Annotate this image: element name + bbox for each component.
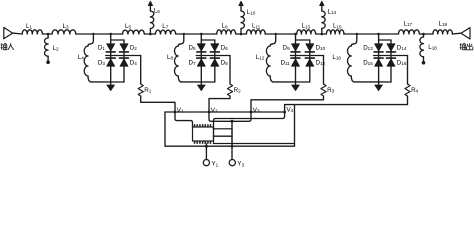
inductor L5 <box>123 30 145 34</box>
svg-text:L12: L12 <box>256 54 265 61</box>
ground group 4 <box>378 82 380 85</box>
svg-text:L14: L14 <box>328 9 337 16</box>
diode D3 <box>106 57 115 59</box>
svg-text:V3: V3 <box>253 107 260 114</box>
svg-text:D9: D9 <box>283 45 290 52</box>
svg-text:L16: L16 <box>332 54 341 61</box>
svg-text:Y3: Y3 <box>237 161 244 167</box>
node V1 <box>174 111 177 114</box>
winding teeth top <box>195 124 211 127</box>
svg-text:D10: D10 <box>316 45 326 52</box>
inductor L16 shunt coil <box>351 44 352 46</box>
svg-text:L19: L19 <box>439 21 448 28</box>
inductor L12 shunt coil <box>270 44 271 46</box>
wire diode column 2 group 2 <box>214 40 216 82</box>
terminal dot below L2 <box>46 60 50 64</box>
wire mid tap group 1 <box>106 55 141 57</box>
svg-text:L17: L17 <box>404 21 413 28</box>
inductor L7 <box>155 30 175 34</box>
svg-text:D13: D13 <box>363 45 373 52</box>
wire outer loop left and bottom <box>165 105 295 147</box>
svg-text:L15: L15 <box>333 23 342 30</box>
wire feed from main line group 2 <box>180 34 184 44</box>
inductor L2 shunt <box>47 34 49 38</box>
svg-text:L7: L7 <box>162 23 168 30</box>
wire mid tap group 3 <box>291 55 324 57</box>
inductor L14 vertical <box>321 6 323 11</box>
wire bottom bus group 1 <box>90 81 124 83</box>
inductor L8 shunt coil <box>178 44 179 46</box>
inductor L19 <box>433 30 453 34</box>
svg-text:L8: L8 <box>167 54 173 61</box>
diode D13 <box>375 44 383 51</box>
svg-text:L11: L11 <box>252 23 261 30</box>
wire to output triangle <box>452 32 461 35</box>
terminal circle Y1 <box>203 160 209 166</box>
node bus V1-V4 <box>165 111 285 113</box>
svg-text:L9: L9 <box>222 23 228 30</box>
wire feed from main line group 3 <box>271 34 275 44</box>
svg-text:L6: L6 <box>154 8 160 15</box>
resistor R1 <box>138 84 143 96</box>
diode D5 <box>197 44 205 51</box>
wire stub to column 2 group 1 <box>111 39 124 41</box>
resistor R4 <box>405 84 410 96</box>
wire main line segments <box>42 33 52 35</box>
svg-text:R1: R1 <box>144 87 151 94</box>
diode D14 <box>387 44 395 51</box>
svg-text:D6: D6 <box>221 45 228 52</box>
winding teeth bottom <box>195 141 211 144</box>
svg-text:L18: L18 <box>428 44 437 51</box>
wire R1 to node V1 <box>141 96 175 112</box>
wire mid tap group 2 <box>196 55 230 57</box>
diode D7 <box>197 57 206 59</box>
arrow up above L10 <box>239 1 243 5</box>
wire V2 to V3 link <box>209 112 251 121</box>
wire diode column 1 group 3 <box>295 34 297 82</box>
diode D8 <box>210 57 219 59</box>
node V3 <box>250 111 253 114</box>
wire Y3 terminal <box>231 121 233 159</box>
wire feed from main line group 1 <box>89 34 93 44</box>
arrow up above L6 <box>148 1 152 5</box>
output terminal triangle <box>461 28 470 39</box>
label shu-ru (input) <box>1 43 7 50</box>
wire diode column 2 group 4 <box>390 40 392 82</box>
inductor L1 <box>22 30 42 34</box>
svg-text:L13: L13 <box>302 23 311 30</box>
wire bottom bus group 2 <box>181 81 215 83</box>
wire R4 to node V4 <box>285 96 408 112</box>
diode D12 <box>305 57 314 59</box>
svg-text:D8: D8 <box>221 60 228 67</box>
node V4 <box>283 111 286 114</box>
node V2 <box>208 111 211 114</box>
svg-text:V4: V4 <box>286 106 293 113</box>
svg-text:V1: V1 <box>177 107 184 114</box>
diode D4 <box>120 57 129 59</box>
svg-text:D14: D14 <box>397 45 407 52</box>
wire core box bottom extension <box>232 143 295 145</box>
diode D1 <box>107 44 115 51</box>
inductor L9 <box>217 30 236 34</box>
terminal circle Y3 <box>229 160 235 166</box>
wire stub to column 2 group 3 <box>296 39 310 41</box>
diode D11 <box>291 57 300 59</box>
wire mid tap group 4 <box>374 55 408 57</box>
wire Y1 terminal <box>205 144 207 160</box>
label shu-chu (output) <box>460 43 466 50</box>
inductor L10 vertical <box>240 6 242 11</box>
wire feed from main line group 4 <box>353 34 357 44</box>
svg-text:R4: R4 <box>411 87 418 94</box>
transformer winding box <box>193 127 214 141</box>
svg-text:D15: D15 <box>363 60 373 67</box>
wire diode column 2 group 3 <box>309 40 311 82</box>
svg-text:D7: D7 <box>188 60 195 67</box>
svg-text:D5: D5 <box>188 45 195 52</box>
svg-text:D4: D4 <box>130 60 137 67</box>
wire input to L1 <box>13 32 23 35</box>
svg-text:D2: D2 <box>130 45 137 52</box>
diode D15 <box>374 57 383 59</box>
svg-text:D16: D16 <box>397 60 407 67</box>
inductor L17 <box>399 30 420 34</box>
inductor L11 <box>246 30 265 34</box>
wire stub to column 2 group 4 <box>379 39 391 41</box>
inductor L13 <box>297 30 316 34</box>
svg-text:L3: L3 <box>63 23 69 30</box>
svg-text:D1: D1 <box>98 45 105 52</box>
svg-text:D11: D11 <box>280 60 290 67</box>
wire diode column 1 group 2 <box>200 34 202 82</box>
transformer core box <box>214 129 233 144</box>
wire V1 to transformer primary <box>175 112 193 127</box>
svg-text:Y1: Y1 <box>211 161 218 167</box>
resistor R3 <box>321 84 326 96</box>
wire stub to column 2 group 2 <box>201 39 215 41</box>
diode D10 <box>306 44 314 51</box>
diode D6 <box>211 44 219 51</box>
svg-text:L2: L2 <box>53 45 59 52</box>
ground group 3 <box>295 82 297 85</box>
ground group 1 <box>110 82 112 85</box>
svg-text:R3: R3 <box>327 87 334 94</box>
arrow up above L14 <box>320 1 324 5</box>
resistor R2 <box>227 84 232 96</box>
wire bottom bus group 3 <box>273 81 310 83</box>
wire bottom bus group 4 <box>354 81 391 83</box>
inductor L4 shunt coil <box>88 44 89 46</box>
wire diode column 1 group 1 <box>110 34 112 82</box>
inductor L3 <box>52 30 76 34</box>
svg-text:L10: L10 <box>247 9 256 16</box>
core box mid line <box>214 135 233 137</box>
inductor L18 shunt <box>423 34 425 37</box>
wire diode column 1 group 4 <box>378 34 380 82</box>
wire R3 to node V3 <box>251 96 324 112</box>
wire diode column 2 group 1 <box>123 40 125 82</box>
ground group 2 <box>200 82 202 85</box>
svg-text:D3: D3 <box>98 60 105 67</box>
inductor L15 <box>326 30 344 34</box>
svg-text:L4: L4 <box>78 54 84 61</box>
svg-text:L1: L1 <box>26 23 32 30</box>
wire V4 to transformer secondary <box>214 112 285 129</box>
diode D2 <box>120 44 128 51</box>
input terminal triangle <box>4 27 13 38</box>
svg-text:R2: R2 <box>234 87 241 94</box>
inductor L6 vertical <box>149 6 151 11</box>
wire R2 to node V2 <box>209 96 230 112</box>
svg-text:V2: V2 <box>211 107 218 114</box>
diode D16 <box>387 57 396 59</box>
terminal dot below L18 <box>422 61 426 65</box>
svg-text:L5: L5 <box>125 23 131 30</box>
diode D9 <box>292 44 300 51</box>
